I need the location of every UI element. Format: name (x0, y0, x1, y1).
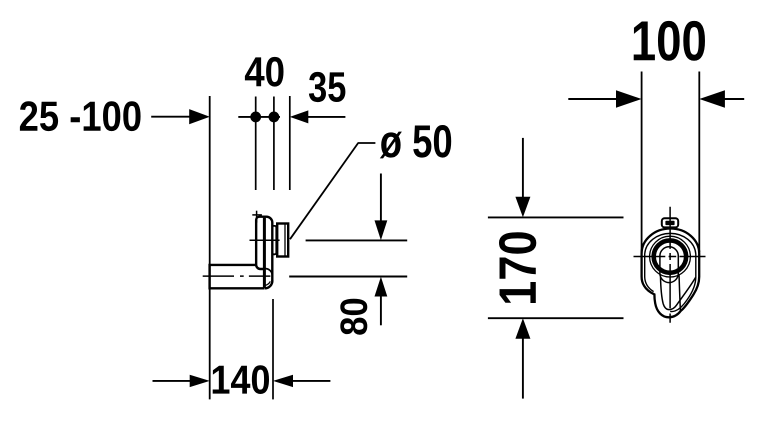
heel inner bend line (264, 281, 270, 285)
top tab outer (662, 218, 678, 227)
front view inner contour line (645, 233, 696, 311)
arrowhead 140 left (190, 375, 210, 387)
arrowhead 35 (290, 110, 309, 123)
front view outer contour (642, 228, 700, 317)
reference line pipe centerline extended (289, 276, 407, 278)
extension line 35 right (289, 96, 291, 190)
reference line spigot centerline extended (306, 239, 408, 241)
waterway inner capsule stadium (660, 247, 678, 283)
dim text 100 (634, 21, 705, 61)
dim text 140 (213, 365, 269, 394)
170 reference line bottom (488, 317, 624, 319)
top tab inner (665, 221, 674, 225)
pipe outline (210, 265, 265, 288)
dim text 170 (499, 232, 536, 303)
elbow heel upper arc (266, 269, 273, 275)
spigot centerline (250, 239, 280, 241)
dim text 40 (245, 57, 284, 87)
170 bottom arrowhead (515, 318, 530, 339)
outlet thin circle (650, 236, 691, 277)
waterway right side to bump (679, 274, 680, 310)
arrowhead 100 left (616, 90, 642, 107)
arrowhead 25-100 (189, 109, 210, 124)
fixing hole cross horizontal (252, 214, 262, 216)
extension line 140 right (272, 299, 274, 399)
front view vertical centerline (669, 207, 671, 323)
spigot collar (272, 226, 276, 254)
spigot down arrow line (380, 174, 382, 223)
extension line left (wall line) (209, 96, 211, 399)
elbow heel outer arc (265, 280, 273, 288)
pipe dash-dot centerline (203, 275, 271, 277)
dot terminator left (250, 112, 261, 123)
dim line through dots (238, 116, 280, 118)
arrowhead 140 right (273, 375, 293, 387)
170 top arrowhead (515, 197, 530, 218)
spigot rib inner line (284, 224, 286, 257)
dim line 140 right (292, 380, 330, 382)
dim text 80 (340, 299, 367, 335)
extension line 40 right (273, 97, 275, 191)
80 up arrowhead (375, 277, 388, 297)
leader diagonal (290, 143, 358, 239)
leader horizontal tick (358, 142, 376, 144)
flange capsule outline (256, 217, 272, 282)
dim line 100 right (724, 98, 744, 100)
spigot down arrowhead (375, 220, 388, 240)
flange thick edge line (263, 218, 266, 289)
dot terminator right (269, 112, 280, 123)
dim line 100 left (568, 98, 617, 100)
dim arrow line 35 (308, 116, 345, 118)
dim line 140 left (153, 380, 192, 382)
waterway hook and sweep (661, 277, 696, 310)
front view horizontal centerline (634, 256, 706, 258)
dim text ø 50 (380, 125, 451, 158)
extension line 40 left (255, 97, 257, 191)
170 top arrow line (522, 138, 524, 198)
extension line 100 right (698, 72, 700, 253)
fixing hole cross vertical (256, 211, 258, 223)
dim arrow line 25-100 (151, 116, 192, 118)
arrowhead 100 right (699, 90, 725, 107)
extension line 100 left (641, 72, 643, 253)
outlet thick ring (654, 240, 686, 272)
spigot rib block (277, 224, 288, 257)
dim text 35 (309, 72, 346, 102)
dim text 25 -100 (20, 101, 141, 131)
80 up arrow line (380, 295, 382, 325)
170 reference line top (488, 216, 624, 218)
170 bottom arrow line (522, 338, 524, 399)
front view inner contour bottom-left (645, 277, 654, 292)
